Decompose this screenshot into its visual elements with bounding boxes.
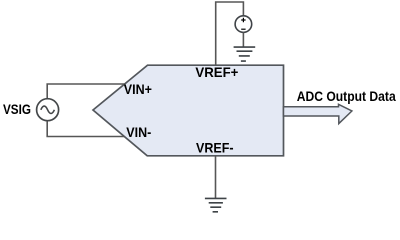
- wire VREF+ to reference source: [216, 2, 244, 65]
- wire VSIG bottom to VIN-: [47, 121, 124, 137]
- svg-text:VSIG: VSIG: [3, 101, 31, 117]
- output bus arrow: [284, 104, 352, 123]
- svg-text:VREF-: VREF-: [196, 139, 234, 155]
- svg-text:VREF+: VREF+: [195, 64, 238, 80]
- wire VREF- to bottom ground: [215, 156, 217, 199]
- ground bottom: [205, 198, 227, 211]
- svg-text:VIN-: VIN-: [126, 124, 151, 140]
- ADC block U1: [93, 65, 284, 156]
- wire source to top ground: [242, 32, 244, 47]
- svg-text:ADC Output Data: ADC Output Data: [297, 88, 396, 104]
- svg-text:VIN+: VIN+: [124, 81, 152, 97]
- ground top: [234, 47, 256, 61]
- dc reference source V1: [235, 16, 252, 33]
- wire VSIG top to VIN+: [47, 84, 124, 99]
- ac source VSIG: [37, 99, 59, 121]
